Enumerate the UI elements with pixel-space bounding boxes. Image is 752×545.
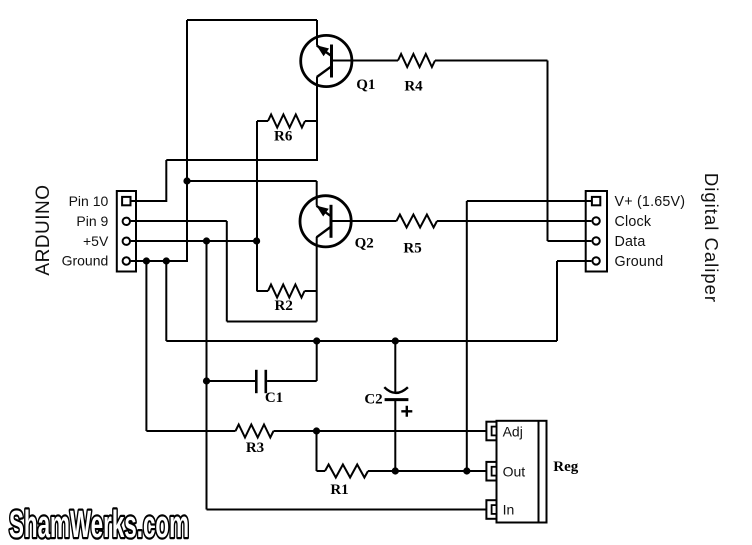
svg-text:+5V: +5V — [83, 233, 109, 249]
svg-text:Reg: Reg — [553, 459, 578, 475]
svg-text:ARDUINO: ARDUINO — [33, 184, 54, 275]
svg-text:Pin 9: Pin 9 — [76, 213, 108, 229]
svg-text:C2: C2 — [364, 392, 382, 408]
svg-text:Data: Data — [615, 234, 646, 250]
svg-text:Ground: Ground — [615, 254, 664, 270]
svg-text:Pin 10: Pin 10 — [69, 193, 109, 209]
svg-text:R3: R3 — [246, 440, 264, 456]
svg-text:R6: R6 — [274, 128, 293, 144]
svg-text:R1: R1 — [330, 482, 348, 498]
svg-text:Q1: Q1 — [356, 77, 375, 93]
svg-text:In: In — [503, 502, 515, 518]
svg-text:V+ (1.65V): V+ (1.65V) — [615, 194, 686, 210]
svg-text:Clock: Clock — [615, 214, 652, 230]
svg-text:R4: R4 — [404, 79, 423, 95]
svg-text:Digital Caliper: Digital Caliper — [701, 173, 722, 303]
svg-text:Out: Out — [503, 463, 526, 479]
svg-text:Q2: Q2 — [355, 235, 374, 251]
svg-text:Adj: Adj — [503, 424, 523, 440]
svg-text:C1: C1 — [265, 390, 283, 406]
svg-text:R5: R5 — [403, 240, 421, 256]
svg-text:Ground: Ground — [62, 253, 109, 269]
svg-text:ShamWerks.com: ShamWerks.com — [9, 504, 189, 545]
svg-text:R2: R2 — [275, 298, 293, 314]
